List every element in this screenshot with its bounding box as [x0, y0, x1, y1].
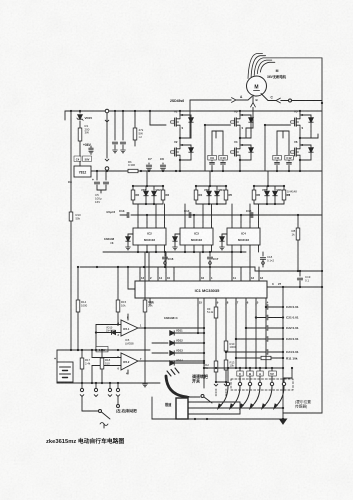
svg-text:C24 0.01: C24 0.01 — [286, 350, 299, 354]
diode VD5 — [266, 186, 268, 190]
svg-text:10k: 10k — [230, 364, 235, 368]
svg-text:D: D — [242, 114, 244, 117]
svg-text:×3: ×3 — [110, 241, 114, 245]
connector hall pin 3 — [249, 376, 251, 382]
wire 7812 out — [92, 170, 107, 172]
svg-text:VD3: VD3 — [204, 188, 210, 192]
svg-text:D: D — [302, 114, 304, 117]
capacitor C23 — [236, 338, 266, 340]
svg-text:5V: 5V — [270, 372, 274, 376]
svg-text:V1: V1 — [174, 110, 178, 114]
svg-text:传感器): 传感器) — [295, 403, 307, 408]
motor lead wire 1 — [248, 54, 263, 79]
svg-text:51.2k: 51.2k — [207, 310, 214, 314]
IC IC1 MC33035 — [135, 281, 267, 298]
wire V6 source — [299, 159, 301, 171]
svg-text:V4: V4 — [234, 140, 238, 144]
wire y368 rail — [204, 367, 283, 369]
connector hall pin 6 — [282, 382, 285, 385]
svg-text:×2: ×2 — [139, 135, 143, 139]
capacitor C20 — [265, 306, 268, 308]
wire left bus x71 upper — [70, 111, 72, 212]
arrow phase C — [276, 98, 280, 103]
svg-text:10k: 10k — [121, 303, 126, 307]
svg-text:MC2103: MC2103 — [238, 238, 249, 242]
arrow phase B — [251, 103, 256, 107]
svg-text:C16: C16 — [168, 257, 174, 261]
wire drop 256 — [255, 303, 257, 368]
connector key switch top — [105, 109, 109, 113]
capacitor C14 — [188, 212, 190, 217]
label pin 5V — [269, 371, 277, 376]
resistor R4 — [195, 186, 197, 190]
wire drop 236 — [235, 303, 237, 368]
transistor V2 — [179, 138, 181, 145]
wire IC3 top feeds — [184, 204, 186, 222]
wire conn feeds — [239, 368, 241, 376]
svg-text:D: D — [182, 114, 184, 117]
capacitor C9 — [211, 131, 213, 161]
svg-text:C23 0.01: C23 0.01 — [286, 337, 299, 341]
op-amp IC5-1 — [121, 320, 138, 336]
diode VD14 — [170, 361, 174, 365]
connector hall pin 2 — [239, 376, 241, 382]
svg-text:36V无刷电机: 36V无刷电机 — [267, 74, 287, 79]
diode VD7 — [127, 234, 129, 236]
svg-text:LM358: LM358 — [125, 341, 134, 345]
wire pin15 drop — [197, 305, 199, 333]
svg-text:C17: C17 — [213, 257, 219, 261]
diode VD12 — [152, 342, 168, 344]
svg-text:1N4148×4: 1N4148×4 — [164, 316, 178, 320]
transistor V4 — [239, 138, 241, 145]
diode DV3 — [240, 114, 251, 116]
svg-text:R6: R6 — [257, 193, 261, 197]
IC1 bottom pins — [149, 298, 151, 305]
capacitor C12 — [288, 131, 290, 161]
wire +36V rail — [65, 110, 322, 112]
capacitor C19 — [299, 271, 301, 276]
connector pin x118 — [117, 383, 119, 388]
wire bottom right horiz — [283, 412, 322, 414]
svg-text:限速: 限速 — [165, 402, 172, 407]
transistor V6 — [299, 138, 301, 145]
junction dots rail — [140, 170, 142, 172]
svg-text:C22 0.01: C22 0.01 — [286, 326, 299, 330]
svg-text:20k: 20k — [148, 303, 153, 307]
capacitor C2b — [122, 111, 124, 140]
ground (below R16) — [143, 383, 148, 385]
diode VD11 — [170, 331, 174, 335]
svg-text:V3: V3 — [234, 110, 238, 114]
svg-text:12: 12 — [251, 276, 255, 280]
svg-text:VD6: VD6 — [277, 188, 283, 192]
svg-text:3W: 3W — [85, 131, 90, 135]
svg-text:0.1: 0.1 — [305, 279, 309, 283]
svg-text:MC2103: MC2103 — [191, 238, 202, 242]
svg-text:IC4: IC4 — [241, 232, 246, 236]
diode DV1 — [180, 114, 191, 116]
resistor R10 — [69, 212, 73, 221]
svg-text:IC5-2: IC5-2 — [123, 360, 130, 364]
svg-text:15: 15 — [199, 301, 203, 305]
diode DV6 — [300, 144, 311, 146]
resistor R6 — [253, 186, 255, 190]
wire IC1 right pin3 — [267, 286, 322, 288]
wire cap top join1 — [212, 130, 223, 132]
wire opamp1 out — [138, 327, 204, 329]
svg-text:IC5-1: IC5-1 — [123, 327, 130, 331]
capacitor C1 — [90, 146, 92, 148]
wire opamp2 in+ — [92, 357, 121, 359]
wire phase C — [261, 94, 268, 101]
IC IC3 — [180, 228, 213, 245]
wire rail y252 — [103, 251, 246, 253]
connector on phase C — [289, 99, 292, 102]
resistor R11 — [236, 357, 260, 359]
switch brake — [99, 410, 102, 413]
connector hall pin 5 — [271, 376, 273, 382]
wire right bus 2 — [321, 102, 323, 104]
resistor R10b — [225, 303, 227, 341]
svg-text:C21 0.01: C21 0.01 — [286, 316, 299, 320]
wire vd join — [203, 298, 205, 388]
wire hall pin6 link — [283, 378, 285, 382]
resistor R8 — [297, 215, 299, 228]
svg-text:C9: C9 — [210, 156, 214, 160]
resistor R18 — [101, 350, 103, 358]
wire gate net bottom 2 — [196, 203, 226, 205]
connector pin x110 — [109, 383, 111, 388]
wire right bus 1 — [321, 58, 323, 413]
wire left bus x65 — [64, 111, 66, 120]
wire mid node 3 — [299, 129, 301, 138]
svg-text:V2: V2 — [174, 140, 178, 144]
zener VD15 — [79, 111, 81, 113]
wire drop 266 — [265, 303, 267, 368]
svg-text:16V: 16V — [95, 200, 100, 204]
svg-text:D: D — [242, 144, 244, 147]
svg-text:#7: #7 — [278, 282, 282, 286]
svg-text:IC2: IC2 — [147, 232, 152, 236]
diode VD8 — [174, 234, 176, 236]
wire gate net bottom 3 — [254, 203, 284, 205]
svg-text:(霍尔位置: (霍尔位置 — [295, 399, 311, 404]
connector pin x96 — [95, 383, 97, 388]
resistor R17 — [81, 350, 83, 358]
resistor R14 — [77, 267, 79, 300]
IC IC2 — [133, 228, 166, 245]
wire IC4 top feeds — [231, 204, 233, 222]
wire hall bus — [282, 287, 284, 413]
svg-text:VD2: VD2 — [156, 188, 162, 192]
diode VD9 — [221, 234, 223, 236]
connector key switch bottom — [105, 159, 109, 161]
resistor R7 — [283, 186, 285, 190]
battery B1 — [56, 350, 58, 362]
switch throttle — [187, 396, 200, 398]
capacitor C21 — [256, 317, 266, 319]
svg-text:VD4: VD4 — [219, 188, 225, 192]
wire cap top join2 — [277, 130, 289, 132]
svg-text:10: 10 — [167, 276, 171, 280]
wire C tap — [311, 137, 318, 139]
resistor R15 — [117, 267, 119, 300]
svg-text:VD14: VD14 — [176, 359, 183, 363]
wire drop 246 — [245, 303, 247, 368]
hall lead 2 — [232, 386, 240, 406]
shunt Rb — [128, 169, 138, 172]
label 0.7W — [96, 347, 108, 352]
svg-text:7812: 7812 — [79, 171, 87, 175]
wire mid node 1 — [179, 129, 181, 138]
svg-text:C13: C13 — [119, 209, 125, 213]
svg-text:IC3: IC3 — [194, 232, 199, 236]
wire gate net bottom 1 — [133, 203, 163, 205]
wire IC2 top feeds — [137, 204, 139, 222]
wire rail y271 right — [254, 267, 256, 271]
hall lead 6 — [276, 386, 284, 406]
motor lead wire 2 — [251, 56, 266, 77]
svg-text:VD13: VD13 — [176, 349, 183, 353]
svg-text:2.4k: 2.4k — [85, 361, 91, 365]
motor lead wire 3 — [254, 58, 322, 75]
resistor R12 — [214, 361, 218, 372]
wire gate net top 3 — [254, 185, 284, 187]
IC IC4 — [227, 228, 260, 245]
transistor V5 — [299, 111, 301, 115]
svg-text:MC2103: MC2103 — [144, 238, 155, 242]
wire gnd rail — [91, 170, 322, 172]
capacitor C16 — [164, 252, 166, 256]
svg-text:开关: 开关 — [192, 378, 200, 384]
svg-text:R3: R3 — [166, 193, 170, 197]
svg-text:1000: 1000 — [81, 303, 88, 307]
IC1 top pins — [139, 273, 141, 281]
wire phase A drop — [189, 100, 191, 138]
capacitor C3 — [96, 171, 98, 180]
hall lead 5 — [264, 386, 272, 406]
svg-text:R11 10k: R11 10k — [286, 357, 298, 361]
svg-text:×6: ×6 — [287, 193, 291, 197]
svg-text:C8: C8 — [160, 157, 164, 161]
capacitor C15 — [250, 212, 252, 217]
wire rail y383 — [57, 382, 160, 384]
diode VD6 — [274, 186, 276, 190]
ground (bottom right) — [282, 413, 284, 419]
wire gate net top 1 — [133, 185, 163, 187]
resistor R9 — [215, 303, 217, 307]
label pin C — [237, 371, 243, 376]
wire brake left — [81, 397, 83, 411]
svg-text:C7: C7 — [148, 157, 152, 161]
svg-text:M: M — [276, 69, 279, 73]
wire opamp1 in+ — [96, 324, 121, 326]
wire mid rail — [131, 214, 322, 216]
wire V2 source — [179, 159, 181, 171]
connector chev1 — [214, 384, 218, 386]
wire V4 source — [239, 159, 241, 171]
svg-text:VD5: VD5 — [262, 188, 268, 192]
svg-text:C8: C8 — [68, 180, 72, 184]
connector hall pin 1 — [227, 368, 229, 382]
capacitor C17 — [209, 252, 211, 256]
svg-text:13: 13 — [141, 276, 145, 280]
capacitor C4 — [105, 171, 107, 180]
diode VD2 — [153, 186, 155, 190]
wire A tap — [190, 137, 191, 139]
svg-text:C10: C10 — [220, 156, 226, 160]
svg-text:VD15: VD15 — [85, 116, 93, 120]
wire IC1 left pin — [128, 288, 135, 290]
connector hall pin 4 — [259, 376, 261, 382]
transistor V1 — [179, 111, 181, 115]
svg-text:IC1 MC33035: IC1 MC33035 — [195, 288, 220, 293]
label pin A — [257, 371, 263, 376]
svg-text:V5: V5 — [294, 110, 298, 114]
diode VD1 — [145, 186, 147, 190]
wire IC1 top pin links — [139, 267, 141, 273]
svg-text:C4: C4 — [76, 157, 80, 161]
resistor R5 — [225, 186, 227, 190]
motor lead wire 4 — [257, 60, 272, 74]
capacitor C11 — [276, 131, 278, 161]
transistor V3 — [239, 111, 241, 115]
capacitor C10 — [222, 131, 224, 161]
svg-text:12: 12 — [260, 276, 264, 280]
svg-text:2SD45s6: 2SD45s6 — [170, 99, 184, 103]
svg-text:(左,右)制动把: (左,右)制动把 — [116, 408, 137, 413]
svg-text:0.1×2: 0.1×2 — [267, 258, 275, 262]
svg-text:1000: 1000 — [230, 345, 236, 349]
wire gate feed V1 — [149, 111, 151, 125]
capacitor C2a — [114, 111, 116, 140]
svg-text:+: + — [54, 357, 56, 361]
svg-text:M: M — [254, 85, 258, 91]
op-amp IC5-2 — [121, 353, 138, 370]
svg-text:VD11: VD11 — [176, 329, 183, 333]
resistor R16 20k — [144, 252, 146, 300]
svg-text:14: 14 — [159, 276, 163, 280]
svg-text:50V: 50V — [85, 157, 90, 161]
svg-text:4.5μ×2: 4.5μ×2 — [106, 210, 115, 214]
label pin B — [247, 371, 253, 376]
diode DV4 — [240, 144, 251, 146]
svg-text:R2: R2 — [136, 193, 140, 197]
svg-text:0.306: 0.306 — [128, 163, 135, 167]
diode DV5 — [300, 114, 311, 116]
svg-text:VD12: VD12 — [176, 339, 183, 343]
svg-text:16: 16 — [201, 276, 205, 280]
resistor R2 47k — [134, 111, 136, 128]
svg-text:C11: C11 — [275, 156, 280, 160]
resistor R13b — [224, 360, 228, 370]
hall lead 4 — [252, 386, 260, 406]
svg-text:D: D — [182, 144, 184, 147]
svg-text:R5: R5 — [229, 193, 233, 197]
resistor R2 — [132, 186, 134, 190]
svg-text:50k: 50k — [76, 216, 81, 220]
hall lead 3 — [242, 386, 250, 406]
wire opamp2 in- — [92, 365, 121, 367]
diode VD13 — [152, 352, 168, 354]
capacitor C24 — [226, 351, 266, 353]
regulator IC 7812 — [74, 166, 91, 177]
wire phase A — [190, 99, 248, 101]
svg-text:zke3615mz 电动自行车电路图: zke3615mz 电动自行车电路图 — [46, 437, 124, 445]
wire cap gnd — [97, 189, 106, 191]
svg-text:11: 11 — [233, 276, 236, 280]
resistor R1 — [79, 121, 81, 128]
hall lead 1 — [220, 386, 228, 406]
wire left bus x71 lower — [70, 221, 72, 350]
svg-text:D: D — [302, 144, 304, 147]
svg-text:C15: C15 — [246, 209, 252, 213]
svg-text:V6: V6 — [294, 140, 298, 144]
speed-limit plug — [176, 398, 188, 419]
arrow phase A — [232, 98, 237, 103]
svg-text:510: 510 — [105, 361, 110, 365]
wire mid node 2 — [239, 129, 241, 138]
resistor R3 — [162, 186, 164, 190]
wire bottom rail — [152, 418, 283, 420]
squiggle — [100, 423, 108, 426]
wire phase B drop — [252, 95, 254, 128]
svg-text:VD1: VD1 — [141, 188, 147, 192]
connector pin x82 — [81, 383, 83, 388]
throttle arc — [166, 376, 187, 397]
capacitor C18 — [262, 252, 264, 256]
wire rail y267 — [80, 266, 255, 268]
diode VD3 — [208, 186, 210, 190]
diode DV2 — [180, 144, 191, 146]
motor M1 36V brushless motor — [247, 76, 267, 96]
connector chev2 — [224, 384, 228, 386]
svg-text:B: B — [249, 372, 251, 376]
svg-text:C20 0.01: C20 0.01 — [286, 305, 299, 309]
svg-text:C12: C12 — [286, 156, 292, 160]
svg-text:+36V: +36V — [83, 143, 92, 147]
svg-text:+: + — [92, 178, 94, 182]
diode VD4 — [216, 186, 218, 190]
motor lead wire 5 — [260, 62, 275, 72]
wire rail y350 — [57, 349, 150, 351]
wire opamp2 out — [138, 360, 204, 362]
svg-text:R4: R4 — [199, 193, 203, 197]
wire gate net top 2 — [196, 185, 226, 187]
capacitor C22 — [246, 327, 266, 329]
capacitor C13 — [126, 212, 128, 217]
connector hall dashed box — [231, 379, 293, 390]
